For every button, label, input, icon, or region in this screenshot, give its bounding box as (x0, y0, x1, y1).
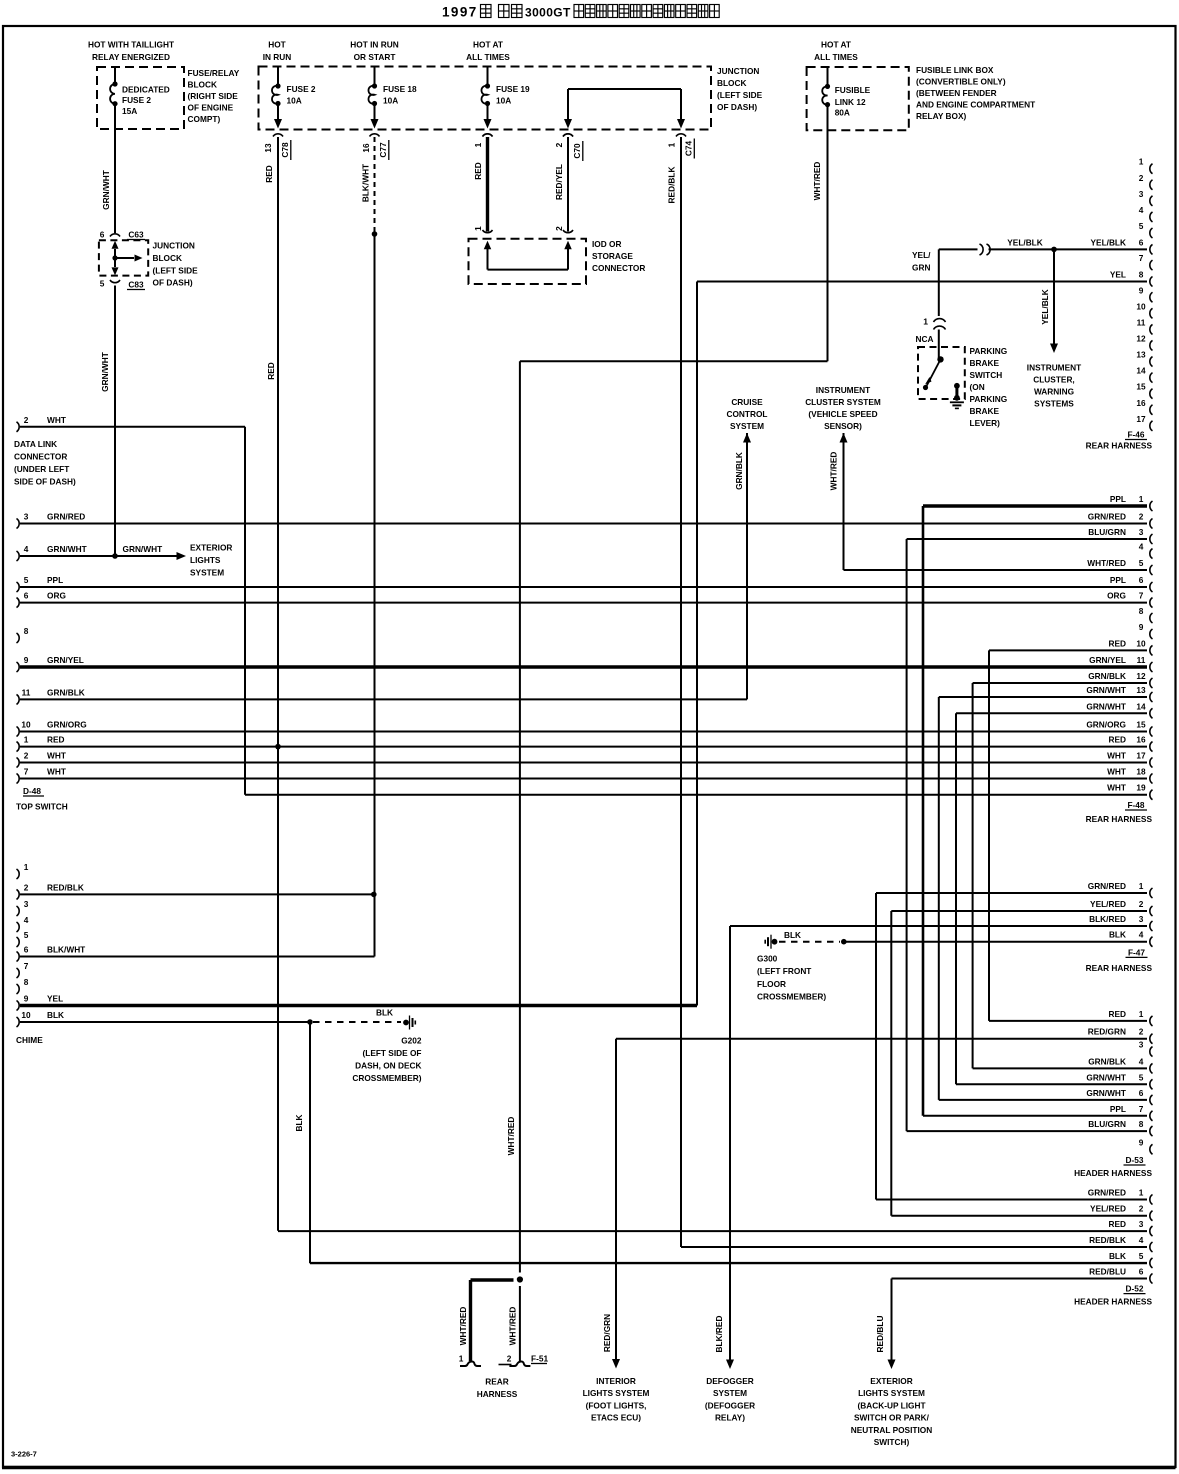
svg-text:RED: RED (266, 362, 276, 380)
svg-text:GRN/BLK: GRN/BLK (734, 452, 744, 490)
svg-text:(LEFT FRONT: (LEFT FRONT (757, 966, 811, 976)
svg-text:1: 1 (459, 1354, 464, 1364)
svg-text:WHT/RED: WHT/RED (458, 1307, 468, 1346)
svg-text:COMPT): COMPT) (188, 114, 221, 124)
svg-text:LINK 12: LINK 12 (835, 97, 866, 107)
svg-text:REAR HARNESS: REAR HARNESS (1086, 963, 1153, 973)
svg-text:GRN/WHT: GRN/WHT (123, 544, 163, 554)
svg-text:3-226-7: 3-226-7 (11, 1450, 37, 1459)
svg-text:RED/BLU: RED/BLU (875, 1316, 885, 1353)
svg-text:F-47: F-47 (1128, 947, 1145, 957)
svg-text:OF DASH): OF DASH) (153, 278, 193, 288)
svg-text:3: 3 (1139, 189, 1144, 199)
svg-text:FUSE/RELAY: FUSE/RELAY (188, 68, 240, 78)
svg-text:FUSE 2: FUSE 2 (287, 84, 316, 94)
svg-text:FLOOR: FLOOR (757, 979, 786, 989)
svg-text:HARNESS: HARNESS (477, 1389, 518, 1399)
svg-text:YEL: YEL (1110, 270, 1126, 280)
svg-text:RELAY): RELAY) (715, 1413, 745, 1423)
svg-text:WHT: WHT (1107, 783, 1126, 793)
svg-text:(LEFT SIDE: (LEFT SIDE (153, 265, 199, 275)
svg-text:OR START: OR START (354, 52, 396, 62)
svg-text:6: 6 (24, 945, 29, 955)
svg-text:RED: RED (264, 165, 274, 183)
svg-text:ALL TIMES: ALL TIMES (814, 52, 858, 62)
svg-text:1: 1 (1139, 1188, 1144, 1198)
svg-text:15: 15 (1136, 720, 1146, 730)
svg-text:CHIME: CHIME (16, 1035, 43, 1045)
svg-text:RELAY ENERGIZED: RELAY ENERGIZED (92, 52, 170, 62)
svg-text:GRN/RED: GRN/RED (1088, 1188, 1126, 1198)
svg-text:(RIGHT SIDE: (RIGHT SIDE (188, 91, 239, 101)
svg-text:1: 1 (1139, 157, 1144, 167)
svg-text:GRN/WHT: GRN/WHT (101, 170, 111, 210)
svg-text:10: 10 (21, 1010, 31, 1020)
svg-text:G300: G300 (757, 954, 778, 964)
svg-text:5: 5 (1139, 1251, 1144, 1261)
svg-text:6: 6 (1139, 575, 1144, 585)
svg-text:WHT: WHT (47, 751, 66, 761)
svg-text:SWITCH): SWITCH) (874, 1437, 910, 1447)
svg-text:GRN/RED: GRN/RED (1088, 881, 1126, 891)
svg-text:2: 2 (1139, 512, 1144, 522)
svg-text:(VEHICLE SPEED: (VEHICLE SPEED (808, 409, 877, 419)
svg-text:GRN/WHT: GRN/WHT (100, 352, 110, 392)
svg-text:7: 7 (1139, 253, 1144, 263)
svg-text:GRN/ORG: GRN/ORG (47, 720, 87, 730)
svg-text:6: 6 (1139, 237, 1144, 247)
svg-text:EXTERIOR: EXTERIOR (870, 1376, 912, 1386)
svg-text:SENSOR): SENSOR) (824, 421, 862, 431)
svg-text:RED: RED (1108, 1219, 1126, 1229)
svg-text:OF DASH): OF DASH) (717, 102, 757, 112)
svg-text:80A: 80A (835, 108, 850, 118)
svg-text:DASH, ON DECK: DASH, ON DECK (355, 1060, 421, 1070)
svg-text:15: 15 (1136, 382, 1146, 392)
svg-text:OF ENGINE: OF ENGINE (188, 103, 234, 113)
svg-text:AND ENGINE COMPARTMENT: AND ENGINE COMPARTMENT (916, 100, 1035, 110)
svg-text:16: 16 (361, 143, 371, 153)
svg-text:RED/GRN: RED/GRN (602, 1314, 612, 1352)
svg-text:1: 1 (1139, 1009, 1144, 1019)
svg-text:4: 4 (24, 544, 29, 554)
svg-text:ORG: ORG (1107, 591, 1126, 601)
svg-text:10A: 10A (496, 96, 511, 106)
svg-text:PPL: PPL (1110, 494, 1126, 504)
svg-text:GRN/WHT: GRN/WHT (1086, 1072, 1126, 1082)
svg-text:RED: RED (473, 162, 483, 180)
svg-text:GRN/WHT: GRN/WHT (1086, 685, 1126, 695)
svg-text:GRN/ORG: GRN/ORG (1086, 720, 1126, 730)
svg-text:10: 10 (1136, 638, 1146, 648)
svg-text:5: 5 (24, 930, 29, 940)
svg-text:CLUSTER,: CLUSTER, (1033, 375, 1075, 385)
svg-text:C77: C77 (378, 142, 388, 158)
svg-text:JUNCTION: JUNCTION (153, 241, 195, 251)
svg-text:1: 1 (24, 735, 29, 745)
svg-text:(BACK-UP LIGHT: (BACK-UP LIGHT (857, 1400, 925, 1410)
svg-text:C83: C83 (128, 280, 144, 290)
svg-text:CROSSMEMBER): CROSSMEMBER) (757, 992, 826, 1002)
svg-text:HOT AT: HOT AT (821, 40, 851, 50)
svg-text:ETACS ECU): ETACS ECU) (591, 1413, 641, 1423)
svg-text:2: 2 (1139, 899, 1144, 909)
svg-text:1: 1 (473, 142, 483, 147)
svg-text:1: 1 (473, 226, 483, 231)
svg-text:18: 18 (1136, 767, 1146, 777)
svg-text:15A: 15A (122, 106, 137, 116)
svg-text:WHT/RED: WHT/RED (828, 452, 838, 491)
svg-text:7: 7 (1139, 591, 1144, 601)
svg-text:IOD OR: IOD OR (592, 239, 622, 249)
svg-text:(UNDER LEFT: (UNDER LEFT (14, 464, 69, 474)
svg-text:3: 3 (1139, 1040, 1144, 1050)
svg-text:HEADER HARNESS: HEADER HARNESS (1074, 1168, 1152, 1178)
svg-text:SYSTEMS: SYSTEMS (1034, 399, 1074, 409)
svg-text:12: 12 (1136, 333, 1146, 343)
svg-text:(ON: (ON (970, 382, 985, 392)
svg-text:PARKING: PARKING (970, 346, 1008, 356)
svg-text:GRN/WHT: GRN/WHT (1086, 1088, 1126, 1098)
svg-text:12: 12 (1136, 671, 1146, 681)
svg-text:RED/BLK: RED/BLK (667, 167, 677, 204)
svg-text:CONNECTOR: CONNECTOR (592, 263, 645, 273)
svg-text:D-48: D-48 (23, 786, 41, 796)
svg-text:WARNING: WARNING (1034, 387, 1074, 397)
svg-text:GRN/BLK: GRN/BLK (47, 687, 85, 697)
svg-text:RED/BLK: RED/BLK (47, 882, 84, 892)
svg-text:1: 1 (667, 142, 677, 147)
svg-text:IN RUN: IN RUN (263, 52, 292, 62)
svg-text:17: 17 (1136, 414, 1146, 424)
svg-text:REAR HARNESS: REAR HARNESS (1086, 814, 1153, 824)
svg-text:BLK: BLK (376, 1008, 393, 1018)
svg-text:13: 13 (1136, 685, 1146, 695)
svg-text:YEL/RED: YEL/RED (1090, 899, 1126, 909)
svg-text:11: 11 (1137, 317, 1146, 327)
svg-text:8: 8 (1139, 1119, 1144, 1129)
svg-text:WHT/RED: WHT/RED (508, 1307, 518, 1346)
svg-text:4: 4 (1139, 205, 1144, 215)
svg-text:HOT WITH TAILLIGHT: HOT WITH TAILLIGHT (88, 40, 174, 50)
svg-text:HEADER HARNESS: HEADER HARNESS (1074, 1297, 1152, 1307)
svg-text:RED: RED (47, 735, 65, 745)
svg-text:GRN/YEL: GRN/YEL (1089, 655, 1126, 665)
svg-text:LIGHTS SYSTEM: LIGHTS SYSTEM (583, 1388, 650, 1398)
svg-text:2: 2 (1139, 1027, 1144, 1037)
svg-text:HOT: HOT (268, 40, 286, 50)
svg-text:REAR HARNESS: REAR HARNESS (1086, 441, 1153, 451)
svg-text:C78: C78 (280, 142, 290, 158)
svg-text:DATA LINK: DATA LINK (14, 439, 57, 449)
svg-text:5: 5 (1139, 1072, 1144, 1082)
svg-text:C63: C63 (128, 230, 144, 240)
svg-text:BLU/GRN: BLU/GRN (1088, 1119, 1126, 1129)
svg-text:PARKING: PARKING (970, 394, 1008, 404)
svg-text:10: 10 (1136, 301, 1146, 311)
svg-text:GRN/WHT: GRN/WHT (1086, 701, 1126, 711)
svg-text:NCA: NCA (916, 334, 934, 344)
svg-text:YEL/BLK: YEL/BLK (1007, 238, 1043, 248)
svg-text:5: 5 (1139, 558, 1144, 568)
svg-text:ORG: ORG (47, 591, 66, 601)
svg-text:YEL/BLK: YEL/BLK (1091, 238, 1127, 248)
svg-text:SYSTEM: SYSTEM (190, 567, 224, 577)
svg-text:D-52: D-52 (1126, 1284, 1144, 1294)
svg-text:RED/GRN: RED/GRN (1088, 1027, 1126, 1037)
svg-text:7: 7 (24, 961, 29, 971)
svg-text:PPL: PPL (1110, 575, 1126, 585)
svg-text:NEUTRAL POSITION: NEUTRAL POSITION (851, 1425, 932, 1435)
svg-text:GRN/BLK: GRN/BLK (1088, 671, 1126, 681)
svg-text:BLOCK: BLOCK (717, 78, 747, 88)
svg-text:BLK: BLK (47, 1010, 64, 1020)
svg-text:GRN/YEL: GRN/YEL (47, 655, 84, 665)
svg-text:10A: 10A (287, 96, 302, 106)
svg-text:13: 13 (263, 143, 273, 153)
svg-text:YEL/: YEL/ (912, 250, 931, 260)
svg-text:BLU/GRN: BLU/GRN (1088, 527, 1126, 537)
svg-text:7: 7 (24, 767, 29, 777)
svg-text:GRN: GRN (912, 263, 930, 273)
svg-text:F-51: F-51 (531, 1354, 548, 1364)
svg-text:RED/BLU: RED/BLU (1089, 1267, 1126, 1277)
svg-text:3000GT: 3000GT (525, 6, 571, 20)
svg-text:6: 6 (1139, 1267, 1144, 1277)
svg-text:WHT: WHT (47, 415, 66, 425)
svg-text:BRAKE: BRAKE (970, 358, 1000, 368)
svg-text:1997: 1997 (442, 5, 478, 20)
svg-text:CONTROL: CONTROL (726, 409, 767, 419)
svg-text:HOT IN RUN: HOT IN RUN (350, 40, 398, 50)
svg-text:8: 8 (24, 626, 29, 636)
svg-text:LEVER): LEVER) (970, 418, 1001, 428)
svg-text:5: 5 (1139, 221, 1144, 231)
svg-text:(FOOT LIGHTS,: (FOOT LIGHTS, (586, 1400, 647, 1410)
svg-text:INSTRUMENT: INSTRUMENT (816, 385, 870, 395)
svg-text:GRN/RED: GRN/RED (1088, 512, 1126, 522)
svg-text:2: 2 (554, 226, 564, 231)
svg-text:DEDICATED: DEDICATED (122, 84, 170, 94)
svg-text:G202: G202 (401, 1036, 422, 1046)
svg-text:RED/YEL: RED/YEL (554, 164, 564, 200)
svg-text:C70: C70 (572, 143, 582, 159)
svg-text:JUNCTION: JUNCTION (717, 66, 759, 76)
svg-text:5: 5 (24, 575, 29, 585)
svg-text:YEL/RED: YEL/RED (1090, 1204, 1126, 1214)
svg-text:F-46: F-46 (1127, 430, 1144, 440)
svg-text:1: 1 (1139, 881, 1144, 891)
svg-text:3: 3 (1139, 914, 1144, 924)
svg-text:(LEFT SIDE OF: (LEFT SIDE OF (363, 1048, 422, 1058)
svg-text:SIDE OF DASH): SIDE OF DASH) (14, 477, 76, 487)
svg-text:CRUISE: CRUISE (731, 397, 763, 407)
svg-text:4: 4 (1139, 930, 1144, 940)
svg-text:HOT AT: HOT AT (473, 40, 503, 50)
svg-text:CLUSTER SYSTEM: CLUSTER SYSTEM (805, 397, 881, 407)
svg-text:9: 9 (24, 655, 29, 665)
svg-text:CONNECTOR: CONNECTOR (14, 452, 67, 462)
svg-text:WHT/RED: WHT/RED (812, 162, 822, 201)
svg-text:FUSE 2: FUSE 2 (122, 95, 151, 105)
svg-text:EXTERIOR: EXTERIOR (190, 543, 232, 553)
svg-text:2: 2 (554, 142, 564, 147)
svg-text:10: 10 (21, 720, 31, 730)
svg-text:BLOCK: BLOCK (188, 80, 218, 90)
svg-text:STORAGE: STORAGE (592, 251, 633, 261)
svg-text:4: 4 (1139, 1056, 1144, 1066)
svg-text:F-48: F-48 (1127, 800, 1144, 810)
svg-text:19: 19 (1136, 783, 1146, 793)
svg-text:16: 16 (1136, 398, 1146, 408)
svg-text:BLK: BLK (784, 930, 801, 940)
svg-text:GRN/RED: GRN/RED (47, 512, 85, 522)
svg-text:(CONVERTIBLE ONLY): (CONVERTIBLE ONLY) (916, 77, 1006, 87)
svg-text:2: 2 (24, 415, 29, 425)
svg-text:BLK/RED: BLK/RED (714, 1316, 724, 1353)
svg-text:RELAY BOX): RELAY BOX) (916, 111, 966, 121)
svg-text:5: 5 (100, 279, 105, 289)
svg-text:14: 14 (1136, 366, 1146, 376)
svg-text:6: 6 (1139, 1088, 1144, 1098)
svg-text:WHT: WHT (1107, 767, 1126, 777)
svg-text:BLK/WHT: BLK/WHT (47, 945, 85, 955)
svg-text:BLOCK: BLOCK (153, 253, 183, 263)
svg-text:2: 2 (24, 882, 29, 892)
svg-text:REAR: REAR (485, 1377, 509, 1387)
svg-text:2: 2 (1139, 173, 1144, 183)
svg-text:8: 8 (24, 977, 29, 987)
svg-text:9: 9 (1139, 285, 1144, 295)
svg-text:RED: RED (1108, 638, 1126, 648)
svg-text:SYSTEM: SYSTEM (713, 1388, 747, 1398)
svg-text:C74: C74 (683, 141, 693, 157)
svg-text:GRN/BLK: GRN/BLK (1088, 1056, 1126, 1066)
svg-text:4: 4 (1139, 1235, 1144, 1245)
svg-text:(BETWEEN FENDER: (BETWEEN FENDER (916, 88, 997, 98)
svg-text:4: 4 (1139, 542, 1144, 552)
svg-text:BLK: BLK (294, 1114, 304, 1131)
svg-text:17: 17 (1136, 751, 1146, 761)
svg-text:RED/BLK: RED/BLK (1089, 1235, 1126, 1245)
svg-text:WHT: WHT (47, 767, 66, 777)
svg-text:8: 8 (1139, 270, 1144, 280)
svg-text:1: 1 (923, 317, 928, 327)
svg-text:WHT: WHT (1107, 751, 1126, 761)
svg-text:ALL TIMES: ALL TIMES (466, 52, 510, 62)
svg-text:9: 9 (24, 994, 29, 1004)
svg-text:(LEFT SIDE: (LEFT SIDE (717, 90, 763, 100)
svg-text:3: 3 (24, 899, 29, 909)
svg-text:GRN/WHT: GRN/WHT (47, 544, 87, 554)
svg-text:2: 2 (1139, 1204, 1144, 1214)
svg-text:7: 7 (1139, 1104, 1144, 1114)
svg-text:PPL: PPL (1110, 1104, 1126, 1114)
svg-text:PPL: PPL (47, 575, 63, 585)
svg-text:LIGHTS SYSTEM: LIGHTS SYSTEM (858, 1388, 925, 1398)
svg-text:RED: RED (1108, 735, 1126, 745)
svg-text:1: 1 (24, 862, 29, 872)
svg-text:LIGHTS: LIGHTS (190, 555, 221, 565)
svg-text:FUSIBLE: FUSIBLE (835, 85, 871, 95)
svg-text:6: 6 (24, 591, 29, 601)
svg-text:13: 13 (1136, 350, 1146, 360)
svg-text:9: 9 (1139, 1137, 1144, 1147)
svg-text:YEL: YEL (47, 994, 63, 1004)
svg-text:FUSIBLE LINK BOX: FUSIBLE LINK BOX (916, 65, 994, 75)
svg-text:RED: RED (1108, 1009, 1126, 1019)
svg-text:BLK: BLK (1109, 930, 1126, 940)
svg-text:10A: 10A (383, 96, 398, 106)
svg-text:FUSE 19: FUSE 19 (496, 84, 530, 94)
svg-text:2: 2 (507, 1354, 512, 1364)
svg-text:11: 11 (1137, 655, 1146, 665)
svg-text:CROSSMEMBER): CROSSMEMBER) (352, 1073, 421, 1083)
svg-text:6: 6 (100, 230, 105, 240)
svg-text:3: 3 (24, 512, 29, 522)
svg-text:DEFOGGER: DEFOGGER (706, 1376, 753, 1386)
svg-text:YEL/BLK: YEL/BLK (1040, 289, 1050, 325)
svg-text:9: 9 (1139, 622, 1144, 632)
svg-text:TOP SWITCH: TOP SWITCH (16, 802, 68, 812)
svg-text:FUSE 18: FUSE 18 (383, 84, 417, 94)
svg-text:INSTRUMENT: INSTRUMENT (1027, 363, 1081, 373)
svg-text:14: 14 (1136, 701, 1146, 711)
svg-text:16: 16 (1136, 735, 1146, 745)
svg-text:3: 3 (1139, 1219, 1144, 1229)
svg-text:BLK/RED: BLK/RED (1089, 914, 1126, 924)
svg-text:4: 4 (24, 915, 29, 925)
svg-text:3: 3 (1139, 527, 1144, 537)
svg-text:BRAKE: BRAKE (970, 406, 1000, 416)
svg-text:2: 2 (24, 751, 29, 761)
svg-text:11: 11 (22, 687, 31, 697)
svg-text:(DEFOGGER: (DEFOGGER (705, 1400, 755, 1410)
svg-text:SWITCH OR PARK/: SWITCH OR PARK/ (854, 1413, 930, 1423)
svg-text:1: 1 (1139, 494, 1144, 504)
svg-text:SWITCH: SWITCH (970, 370, 1003, 380)
svg-text:BLK: BLK (1109, 1251, 1126, 1261)
svg-text:BLK/WHT: BLK/WHT (360, 164, 370, 202)
svg-text:INTERIOR: INTERIOR (596, 1376, 636, 1386)
svg-text:D-53: D-53 (1126, 1155, 1144, 1165)
svg-text:WHT/RED: WHT/RED (1087, 558, 1126, 568)
svg-text:SYSTEM: SYSTEM (730, 421, 764, 431)
svg-text:WHT/RED: WHT/RED (506, 1117, 516, 1156)
svg-text:8: 8 (1139, 606, 1144, 616)
